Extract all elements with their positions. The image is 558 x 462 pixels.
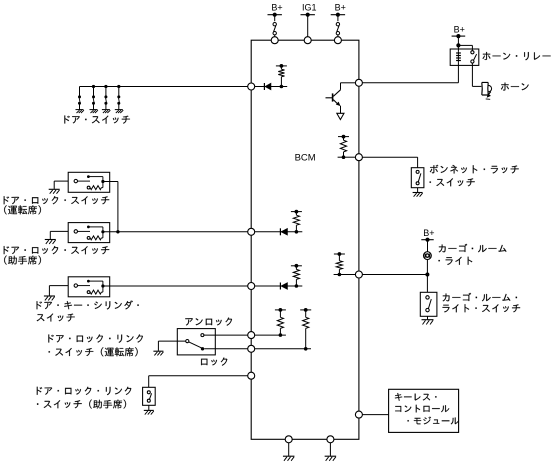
door key cylinder switch box	[68, 277, 110, 297]
wire B+ to lamp	[427, 240, 429, 252]
junction door lock bus	[116, 230, 119, 233]
unlock contact	[201, 334, 204, 337]
door lock link switch (passenger) box	[143, 387, 156, 405]
B+ feed symbol horn relay	[452, 34, 466, 38]
cargo switch contact bottom	[426, 308, 429, 311]
wire box3 to ground	[49, 286, 68, 296]
connector pin ground 1	[285, 436, 292, 443]
label keyless line1	[395, 393, 437, 401]
label keyless line2	[395, 405, 449, 413]
wire internal door lock	[255, 231, 303, 233]
diode D1	[264, 83, 271, 90]
bonnet latch blade	[418, 173, 421, 181]
fuse F2	[336, 23, 339, 35]
wire box1 output	[103, 182, 118, 232]
lock contact dot	[201, 347, 204, 350]
link passenger contact top	[147, 391, 150, 394]
horn relay coil	[456, 52, 461, 63]
wire R6 to pin	[344, 156, 356, 158]
wire keyless	[362, 414, 388, 416]
horn symbol	[482, 82, 492, 99]
link passenger contact bottom	[147, 399, 150, 402]
bonnet latch contact top	[416, 170, 419, 173]
wire internal key cylinder	[255, 285, 303, 287]
label door switch	[64, 116, 129, 124]
wire IG1 to pin	[307, 15, 309, 37]
diode D3	[280, 283, 287, 290]
horn relay box	[450, 49, 479, 65]
wire internal lock	[255, 348, 311, 350]
ground door lock switch driver	[49, 189, 60, 193]
B+ feed symbol (left)	[268, 13, 282, 17]
wire unlock to pin	[204, 334, 248, 336]
link passenger blade	[149, 393, 151, 399]
ground BCM 2	[325, 456, 337, 461]
wire key cylinder bus	[103, 285, 248, 287]
wire B+ to relay	[457, 36, 459, 52]
ground cargo light switch	[422, 320, 434, 325]
diode D2	[280, 228, 287, 235]
cargo switch contact top	[426, 296, 429, 299]
wire box2 to ground	[50, 231, 68, 239]
connector pin IG1	[304, 37, 311, 44]
wire internal door switch	[255, 86, 288, 88]
wire B+ right to fuse	[337, 15, 339, 22]
wire link passenger	[149, 376, 248, 388]
wire R7 to pin	[339, 274, 355, 276]
wire collector	[341, 83, 356, 90]
horn relay contact top	[471, 51, 474, 54]
connector pin door switch input	[248, 83, 255, 90]
label bonnet latch line1	[430, 165, 519, 174]
door switch 4 with ground	[115, 85, 123, 113]
svg-text:B+: B+	[423, 228, 434, 238]
label lock	[201, 358, 227, 366]
ground key cylinder switch	[44, 296, 55, 300]
label key cylinder line1	[37, 301, 139, 310]
connector pin ground 2	[327, 436, 334, 443]
bonnet latch contact bottom	[416, 182, 419, 185]
wire emitter	[340, 106, 342, 113]
label B+ (right)	[335, 2, 346, 12]
label cargo switch line2	[443, 304, 521, 312]
door switch 3 with ground	[102, 85, 110, 113]
label BCM	[295, 153, 316, 164]
bonnet latch switch box	[411, 168, 424, 188]
BCM module box	[251, 40, 359, 439]
label horn	[501, 83, 529, 91]
door lock switch (driver) box	[68, 172, 110, 192]
wire relay coil to BCM pin	[362, 63, 458, 83]
wire ground pin 1	[288, 443, 290, 456]
door switch 2 with ground	[90, 85, 98, 113]
link switch blade	[189, 342, 202, 348]
svg-text:IG1: IG1	[302, 2, 317, 12]
pull-up resistor R7	[334, 252, 345, 276]
ground link switch driver	[153, 351, 163, 355]
wire door switch bus	[80, 86, 248, 88]
connector pin lock	[248, 345, 255, 352]
connector pin B+ (top left)	[271, 37, 278, 44]
label door lock switch passenger line1	[4, 246, 110, 254]
wire door lock bus	[103, 231, 248, 233]
keyless control module box	[389, 389, 459, 432]
wire relay contact to horn	[472, 63, 481, 86]
label B+ horn relay	[454, 24, 465, 34]
wire bonnet latch to ground	[417, 188, 419, 193]
svg-text:BCM: BCM	[295, 153, 316, 164]
horn relay blade	[474, 54, 477, 60]
connector pin horn output	[355, 79, 362, 86]
connector pin unlock	[248, 332, 255, 339]
ground bonnet latch	[413, 193, 423, 197]
wire lock to pin	[204, 348, 248, 350]
connector pin keyless	[355, 411, 362, 418]
connector pin link passenger	[248, 372, 255, 379]
ground door lock switch passenger	[45, 240, 56, 244]
pull-up resistor R3	[291, 264, 302, 288]
wire link passenger to ground	[148, 405, 150, 410]
link switch pole	[186, 340, 189, 343]
connector pin B+ (top right)	[334, 37, 341, 44]
label door lock link driver line1	[48, 334, 142, 342]
cargo switch blade	[428, 299, 431, 309]
wire pin to cargo junction	[362, 274, 427, 276]
wire fuse to pin 2	[337, 35, 339, 37]
label door lock link driver line2	[49, 347, 138, 356]
label door lock switch passenger line2	[4, 256, 41, 265]
horn relay contact bottom	[471, 60, 474, 63]
ground link switch passenger	[144, 410, 154, 414]
pull-up resistor R4	[275, 308, 286, 337]
svg-text:B+: B+	[271, 2, 282, 12]
fuse F1	[273, 23, 276, 35]
label cargo switch line1	[443, 293, 517, 302]
junction dot horn relay	[456, 43, 460, 47]
label key cylinder line2	[37, 314, 75, 322]
label unlock	[185, 318, 232, 326]
door lock switch (passenger) box	[68, 223, 110, 243]
connector pin door lock input	[248, 228, 255, 235]
label bonnet latch line2	[430, 178, 475, 186]
wire cargo switch to ground	[427, 316, 429, 319]
cargo light switch box	[420, 292, 437, 316]
B+ feed symbol cargo	[421, 238, 433, 242]
label B+ (left)	[271, 2, 282, 12]
connector pin bonnet latch	[355, 154, 362, 161]
wire box1 to ground	[54, 181, 68, 189]
B+ feed symbol (right)	[331, 13, 345, 17]
wire bonnet latch	[362, 157, 417, 168]
wire internal unlock	[255, 334, 286, 336]
wire fuse to pin	[274, 35, 276, 37]
label horn relay	[483, 52, 551, 60]
wire B+ left to fuse	[274, 15, 276, 22]
label door lock switch driver line1	[4, 196, 110, 204]
transistor Q1	[326, 90, 341, 106]
label cargo light line2	[439, 257, 473, 265]
connector pin key cylinder input	[248, 283, 255, 290]
door lock link switch (driver) box	[177, 329, 215, 355]
svg-text:B+: B+	[335, 2, 346, 12]
door switch 1 with ground	[76, 87, 84, 114]
pull-up resistor R5	[300, 308, 311, 351]
junction dot cargo	[425, 273, 429, 277]
svg-text:B+: B+	[454, 24, 465, 34]
pull-up resistor R2	[291, 210, 302, 234]
label door lock switch driver line2	[4, 205, 41, 214]
pull-up resistor R1	[276, 64, 287, 88]
cargo room light lamp	[424, 252, 432, 260]
wire lamp to switch	[426, 260, 428, 293]
ground BCM 1	[283, 456, 295, 461]
label door lock link passenger line2	[37, 400, 126, 409]
wire link driver to ground	[158, 341, 185, 351]
label door lock link passenger line1	[37, 387, 132, 395]
label IG1	[302, 2, 317, 12]
wire relay branch to contact	[458, 45, 472, 50]
label cargo light line1	[439, 244, 507, 253]
pull-up resistor R6	[338, 135, 349, 159]
IG1 feed symbol	[301, 13, 315, 17]
wire ground pin 2	[329, 443, 331, 456]
connector pin cargo light	[355, 271, 362, 278]
label keyless line3	[408, 417, 460, 425]
output arrow (to door lock actuators)	[337, 113, 344, 119]
label B+ cargo	[423, 228, 434, 238]
